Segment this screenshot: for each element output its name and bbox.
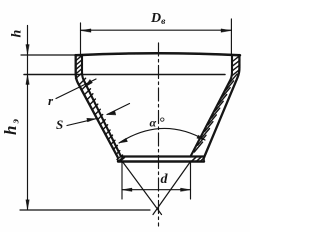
arrow alpha right: [197, 135, 205, 140]
dimension line Dv: [81, 29, 232, 31]
svg-text:h: h: [10, 30, 25, 38]
leader r: [56, 79, 96, 99]
arrow S left: [87, 118, 96, 122]
node Dv extension right: [230, 19, 232, 54]
dimension arc alpha: [119, 128, 205, 143]
arrow d right: [181, 188, 191, 191]
wire h_e bottom extension line: [20, 209, 150, 211]
arrow Dv right: [221, 29, 231, 32]
svg-text:S: S: [56, 117, 63, 132]
arrow d left: [122, 188, 132, 191]
dimension line d: [122, 189, 191, 191]
node d extension right: [190, 162, 192, 199]
arrow Dv left: [81, 29, 92, 32]
leader S right arrow: [107, 104, 130, 115]
leader S left arrow: [67, 119, 96, 126]
wire left wall inner edge: [82, 55, 121, 157]
wire h top extension line: [21, 54, 76, 56]
wire right wall inner edge: [191, 55, 233, 157]
wire left wall outer edge: [76, 55, 118, 157]
wire cone angle construction right: [153, 162, 191, 215]
arrow h top: [26, 45, 29, 55]
centerline: [158, 43, 160, 226]
wire bottom tip right outer edge: [203, 158, 205, 162]
arrow alpha left: [119, 138, 128, 143]
wire right wall outer edge: [204, 55, 239, 158]
svg-text:r: r: [48, 93, 54, 108]
node Dv extension left: [80, 23, 82, 54]
svg-text:Dв: Dв: [150, 11, 166, 27]
svg-text:α: α: [150, 116, 157, 130]
wire top rim outer edge: [76, 53, 241, 55]
svg-text:d: d: [161, 172, 169, 187]
wire cone angle construction left: [122, 161, 162, 215]
hatching left collar: [76, 55, 240, 161]
wire bottom tip left outer edge: [117, 157, 119, 162]
wire inner cone transition edge + h bottom extension: [24, 74, 225, 76]
dimension line h / h_e vertical: [27, 26, 29, 210]
svg-text:hэ: hэ: [1, 118, 22, 135]
wire bottom inner edge line: [121, 155, 204, 157]
arrow S right: [107, 111, 116, 115]
node d extension left: [121, 162, 123, 199]
arrow r: [85, 80, 93, 88]
arrow h_e bottom: [26, 200, 29, 210]
arrow h bottom / h_e top: [26, 75, 29, 85]
svg-text:°: °: [160, 116, 166, 131]
wire bottom face line: [118, 160, 204, 162]
